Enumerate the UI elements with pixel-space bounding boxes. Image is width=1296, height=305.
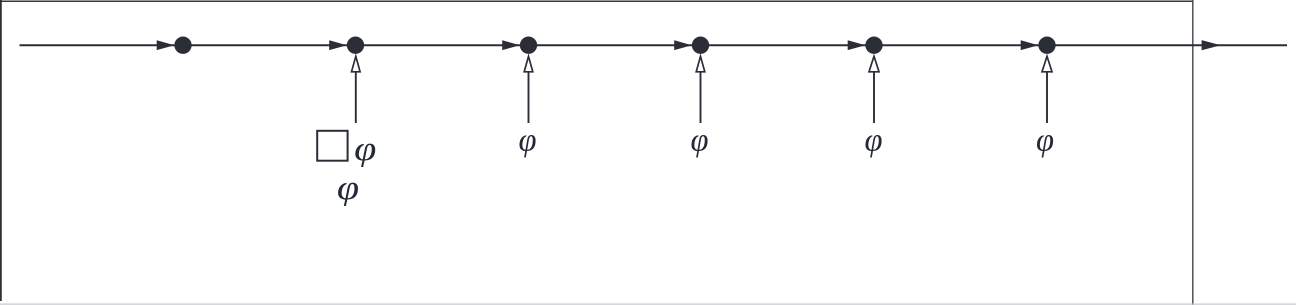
frame bottom faint line — [0, 303, 1296, 305]
arrowhead 1 on timeline — [157, 40, 175, 50]
timeline wire — [20, 44, 1288, 46]
svg-text:φ: φ — [337, 170, 359, 207]
arrowhead 7 on timeline (exit) — [1202, 40, 1221, 50]
arrowhead 5 on timeline — [848, 40, 866, 50]
up arrow under node 6 — [1042, 56, 1052, 123]
node 6 (dot) — [1038, 37, 1055, 54]
frame right vertical line — [1192, 0, 1194, 305]
frame top border — [0, 0, 1193, 2]
up arrow under node 4 — [696, 56, 705, 123]
arrowhead 3 on timeline — [502, 40, 520, 50]
svg-text:φ: φ — [865, 122, 883, 158]
arrowhead 6 on timeline — [1021, 40, 1039, 50]
node 4 (dot) — [692, 37, 709, 54]
node 5 (dot) — [865, 37, 882, 54]
svg-text:φ: φ — [519, 122, 537, 158]
up arrow under node 3 — [524, 56, 533, 123]
arrowhead 2 on timeline — [329, 40, 347, 50]
svg-text:φ: φ — [1036, 122, 1054, 158]
square box — [317, 131, 347, 161]
node 3 (dot) — [520, 37, 537, 54]
node 1 (dot) — [174, 37, 191, 54]
svg-text:φ: φ — [354, 131, 376, 168]
up arrow under node 5 — [869, 56, 879, 123]
node 2 (dot) — [347, 37, 364, 54]
svg-text:φ: φ — [691, 122, 709, 158]
up arrow under node 2 — [352, 56, 361, 123]
arrowhead 4 on timeline — [674, 40, 692, 50]
frame left border — [0, 0, 2, 301]
